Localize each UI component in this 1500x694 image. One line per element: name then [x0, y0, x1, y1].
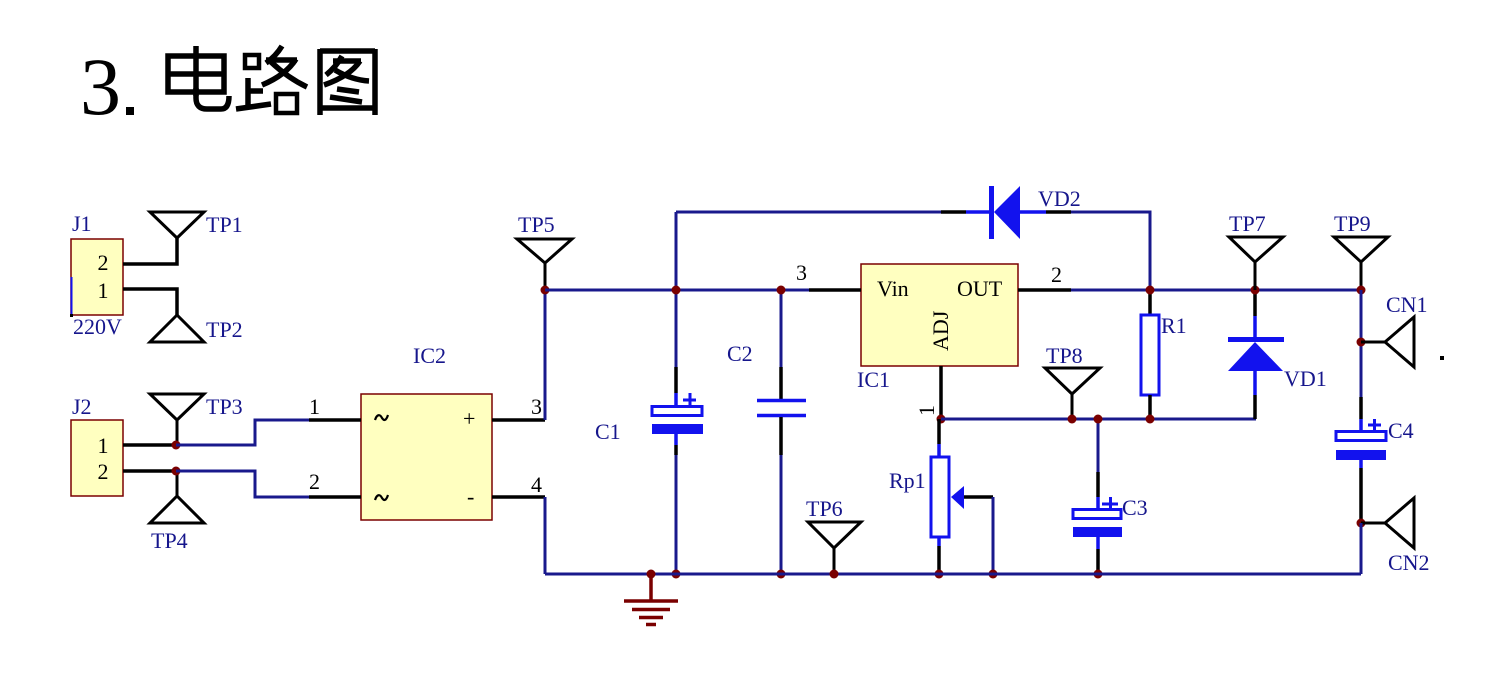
junction node ADJ: [937, 415, 946, 424]
wire J2 pin2: [123, 469, 176, 473]
title hanzi 图: [318, 49, 377, 115]
J1 corner speck: [70, 314, 73, 317]
IC2 pin 4 stub: [492, 495, 545, 499]
diode VD1: [1228, 290, 1327, 419]
wire top rail left drop: [675, 212, 678, 290]
capacitor C1: [595, 290, 703, 574]
svg-text:+: +: [463, 406, 475, 431]
svg-text:CN1: CN1: [1386, 292, 1428, 317]
svg-text:CN2: CN2: [1388, 550, 1430, 575]
capacitor C3: [1073, 419, 1148, 574]
stray period: [1440, 356, 1444, 360]
svg-text:TP8: TP8: [1046, 343, 1083, 368]
wire J1 pin1 to TP2: [123, 289, 177, 315]
svg-text:1: 1: [98, 278, 109, 303]
svg-text:IC1: IC1: [857, 367, 890, 392]
bottom rail: [545, 573, 1361, 576]
test point TP6: [806, 496, 861, 574]
junction node J2-1/TP3: [172, 441, 181, 450]
wire right column lower: [1360, 523, 1363, 574]
junction node C3 top: [1094, 415, 1103, 424]
test point TP1: [150, 212, 243, 238]
svg-text:1: 1: [98, 433, 109, 458]
title period: [126, 107, 134, 115]
svg-text:OUT: OUT: [957, 276, 1003, 301]
IC1 OUT stub (pin 2): [1018, 288, 1071, 292]
test point TP4: [150, 471, 204, 553]
junction node VD1 top: [1251, 286, 1260, 295]
wire J1 pin2 to TP1: [123, 238, 177, 264]
top rail: [676, 211, 941, 214]
junction node CN1: [1357, 338, 1366, 347]
svg-text:J2: J2: [72, 394, 92, 419]
IC2 pin 2 stub: [309, 495, 361, 499]
junction node Rp1 wiper: [989, 570, 998, 579]
wire TP4 node to IC2 pin2: [176, 471, 309, 497]
svg-text:1: 1: [309, 394, 320, 419]
svg-text:ADJ: ADJ: [928, 310, 953, 351]
svg-text:TP5: TP5: [518, 212, 555, 237]
svg-text:TP2: TP2: [206, 317, 243, 342]
wire TP3 node to IC2 pin1: [176, 420, 309, 445]
svg-text:Rp1: Rp1: [889, 468, 926, 493]
IC2 pin 3 stub: [492, 418, 545, 422]
junction node TP9: [1357, 286, 1366, 295]
IC1 Vin stub (pin 3): [809, 288, 861, 292]
IC1 ADJ stub (pin 1): [939, 366, 943, 419]
IC2 pin 1 stub: [309, 418, 361, 422]
ground: [624, 574, 678, 625]
svg-text:TP6: TP6: [806, 496, 843, 521]
connector CN1: [1361, 292, 1428, 367]
junction node TP5: [541, 286, 550, 295]
svg-text:2: 2: [98, 250, 109, 275]
junction node CN2: [1357, 519, 1366, 528]
svg-text:2: 2: [309, 469, 320, 494]
svg-text:TP3: TP3: [206, 394, 243, 419]
svg-text:4: 4: [531, 472, 542, 497]
connector J1: [71, 211, 123, 339]
junction node R1 bottom: [1146, 415, 1155, 424]
junction node Rp1 bottom: [935, 570, 944, 579]
connector CN2: [1361, 498, 1430, 575]
test point TP8: [1045, 343, 1100, 419]
wire J2 pin1: [123, 443, 176, 447]
capacitor C4: [1336, 397, 1414, 523]
main rail right of IC1: [1071, 289, 1361, 292]
test point TP9: [1334, 211, 1388, 290]
svg-text:3: 3: [796, 260, 807, 285]
potentiometer Rp1: [889, 419, 993, 574]
junction node C1 top: [672, 286, 681, 295]
svg-text:3: 3: [80, 41, 121, 132]
svg-text:-: -: [467, 484, 474, 509]
J1 edit cursor artifact: [71, 277, 73, 314]
junction node C2 bottom: [777, 570, 786, 579]
top rail right segment: [1071, 212, 1150, 290]
junction node ground: [647, 570, 656, 579]
title hanzi 路: [236, 46, 307, 113]
svg-text:2: 2: [98, 459, 109, 484]
test point TP2: [150, 315, 243, 342]
svg-text:IC2: IC2: [413, 343, 446, 368]
junction node TP8: [1068, 415, 1077, 424]
junction node C3 bottom: [1094, 570, 1103, 579]
svg-text:TP9: TP9: [1334, 211, 1371, 236]
svg-text:TP4: TP4: [151, 528, 188, 553]
main rail: [545, 289, 809, 292]
junction node J2-2/TP4: [172, 467, 181, 476]
svg-text:R1: R1: [1161, 313, 1187, 338]
svg-text:Vin: Vin: [877, 276, 909, 301]
junction node C1 bottom: [672, 570, 681, 579]
connector J2: [71, 394, 123, 496]
test point TP7: [1229, 211, 1283, 290]
title hanzi 电: [168, 46, 229, 109]
resistor R1: [1141, 290, 1187, 419]
test point TP3: [150, 394, 243, 445]
bridge rectifier IC2: [361, 343, 492, 520]
svg-text:C1: C1: [595, 419, 621, 444]
svg-text:VD1: VD1: [1284, 366, 1327, 391]
wire right column upper: [1360, 290, 1363, 397]
svg-text:TP1: TP1: [206, 212, 243, 237]
svg-text:J1: J1: [72, 211, 92, 236]
svg-text:C2: C2: [727, 341, 753, 366]
svg-text:1: 1: [914, 405, 939, 416]
svg-text:TP7: TP7: [1229, 211, 1266, 236]
svg-text:3: 3: [531, 394, 542, 419]
wire IC2 pin3 up to main rail: [544, 290, 547, 420]
svg-text:VD2: VD2: [1038, 186, 1081, 211]
capacitor C2: [727, 290, 806, 574]
ADJ rail: [941, 418, 1256, 421]
svg-text:220V: 220V: [73, 314, 122, 339]
junction node R1 top: [1146, 286, 1155, 295]
diode VD2: [941, 186, 1081, 239]
junction node C2 top: [777, 286, 786, 295]
junction node TP6: [830, 570, 839, 579]
regulator IC1: [857, 264, 1018, 392]
svg-text:C3: C3: [1122, 495, 1148, 520]
test point TP5: [517, 212, 572, 290]
svg-text:C4: C4: [1388, 418, 1414, 443]
svg-text:2: 2: [1051, 262, 1062, 287]
wire IC2 pin4 down to bottom rail: [544, 497, 547, 574]
